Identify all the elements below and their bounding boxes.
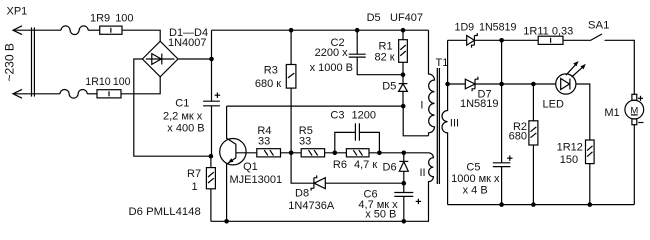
svg-text:D5: D5 bbox=[367, 12, 381, 24]
svg-text:2200 х: 2200 х bbox=[315, 47, 349, 59]
svg-text:1D9: 1D9 bbox=[455, 22, 475, 34]
svg-text:х 1000 В: х 1000 В bbox=[310, 62, 353, 74]
svg-text:~230 В: ~230 В bbox=[3, 43, 17, 81]
svg-text:х 400 В: х 400 В bbox=[167, 122, 204, 134]
svg-text:I: I bbox=[420, 99, 423, 111]
svg-text:2,2 мк х: 2,2 мк х bbox=[163, 110, 203, 122]
svg-text:100: 100 bbox=[113, 76, 131, 88]
svg-text:MJE13001: MJE13001 bbox=[230, 174, 283, 186]
svg-text:R3: R3 bbox=[264, 64, 278, 76]
svg-text:D6 PMLL4148: D6 PMLL4148 bbox=[129, 206, 201, 218]
svg-text:SA1: SA1 bbox=[588, 19, 610, 31]
svg-text:C5: C5 bbox=[466, 161, 480, 173]
svg-text:R7: R7 bbox=[187, 168, 201, 180]
svg-text:1R11 0,33: 1R11 0,33 bbox=[523, 25, 573, 37]
svg-text:1R9: 1R9 bbox=[90, 13, 110, 25]
svg-text:C3: C3 bbox=[330, 110, 344, 122]
svg-text:х 4 В: х 4 В bbox=[463, 184, 488, 196]
svg-text:1N4736A: 1N4736A bbox=[288, 200, 335, 212]
svg-text:150: 150 bbox=[560, 154, 578, 166]
svg-text:M1: M1 bbox=[604, 107, 619, 119]
svg-text:х 50 В: х 50 В bbox=[365, 208, 396, 220]
svg-text:II: II bbox=[420, 167, 426, 179]
svg-text:III: III bbox=[450, 117, 459, 129]
svg-text:D8: D8 bbox=[295, 188, 309, 200]
svg-text:1: 1 bbox=[192, 181, 198, 193]
svg-text:XP1: XP1 bbox=[7, 6, 28, 18]
svg-text:680 к: 680 к bbox=[255, 78, 281, 90]
svg-text:C1: C1 bbox=[175, 97, 189, 109]
svg-text:Q1: Q1 bbox=[243, 161, 258, 173]
svg-text:1N4007: 1N4007 bbox=[168, 37, 207, 49]
svg-text:UF407: UF407 bbox=[390, 12, 423, 24]
svg-text:1N5819: 1N5819 bbox=[479, 22, 516, 34]
svg-text:D6: D6 bbox=[383, 161, 397, 173]
svg-text:1N5819: 1N5819 bbox=[460, 98, 499, 110]
svg-text:1200: 1200 bbox=[352, 110, 376, 122]
svg-text:680: 680 bbox=[509, 131, 527, 143]
svg-text:100: 100 bbox=[115, 13, 133, 25]
svg-text:1000 мк х: 1000 мк х bbox=[451, 173, 500, 185]
svg-text:33: 33 bbox=[299, 135, 311, 147]
svg-text:1R12: 1R12 bbox=[557, 141, 583, 153]
svg-text:LED: LED bbox=[543, 99, 564, 111]
svg-text:33: 33 bbox=[258, 135, 270, 147]
svg-text:82 к: 82 к bbox=[375, 52, 395, 64]
svg-text:4,7 к: 4,7 к bbox=[354, 159, 377, 171]
svg-text:D5: D5 bbox=[382, 81, 396, 93]
svg-text:R6: R6 bbox=[333, 159, 347, 171]
svg-text:1R10: 1R10 bbox=[85, 76, 110, 88]
svg-text:T1: T1 bbox=[436, 57, 449, 69]
